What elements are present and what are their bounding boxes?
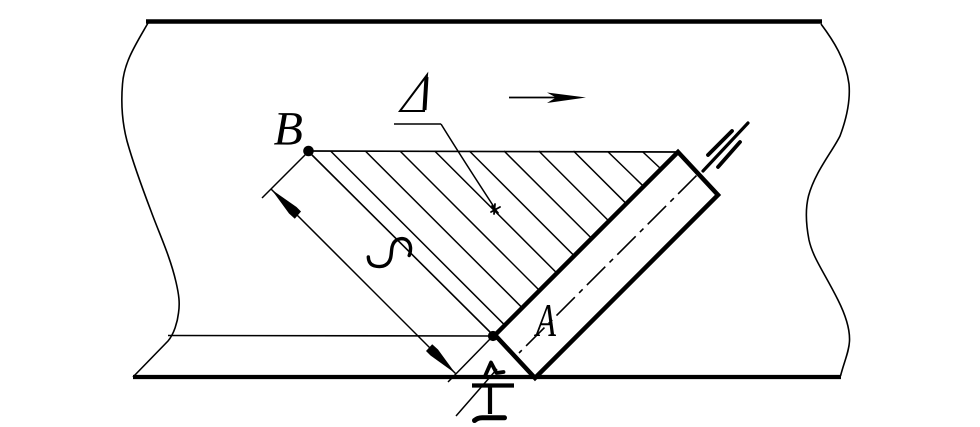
axis extension (bold, outside rectangle) <box>703 123 748 171</box>
delta leader line <box>441 124 496 210</box>
bottom plate edge (thick line) <box>133 375 841 379</box>
direction arrow (top) <box>509 93 586 104</box>
right break (wavy) line <box>806 24 849 376</box>
delta symbol (triangle glyph) <box>400 75 427 111</box>
surface level line through A (thin) <box>168 335 491 338</box>
movement tick 1 (upper-left bold stroke) <box>708 131 732 155</box>
label A <box>534 305 556 336</box>
point A (filled dot) <box>488 331 498 341</box>
label B <box>274 113 302 145</box>
delta leader shelf <box>394 123 441 125</box>
top plate edge (thick line) <box>146 19 822 24</box>
weld symbol top bar <box>472 383 514 387</box>
S dimension arrowhead (top, pointing to B extension) <box>272 190 302 219</box>
line B to A (left side of hatched triangle) <box>310 153 493 335</box>
electrode rectangle (thick outline) <box>495 152 718 378</box>
S dimension: extension line from B (perpendicular) <box>262 153 307 198</box>
label S (hand-drawn script) <box>368 239 410 267</box>
weld symbol vertical stroke <box>488 386 492 414</box>
top edge of deposit (line B to rectangle corner) <box>308 151 678 152</box>
weld leader line (thin diagonal below plate) <box>456 369 497 416</box>
electrode dash-dot axis line <box>519 173 699 353</box>
S dimension line <box>271 189 456 374</box>
left break (wavy) line <box>122 23 179 377</box>
hatch lines <box>331 151 661 325</box>
point B (filled dot) <box>303 146 314 157</box>
weld symbol bottom bar <box>475 418 505 421</box>
S dimension arrowhead (bottom, pointing to A extension) <box>426 344 456 373</box>
S dimension: extension line from A (perpendicular) <box>448 338 491 382</box>
movement tick 2 (lower-right bold stroke) <box>718 142 740 167</box>
delta leader end mark (small scribble arrow) <box>491 204 500 214</box>
weld arrow flag (bold inverted V) <box>486 363 504 376</box>
